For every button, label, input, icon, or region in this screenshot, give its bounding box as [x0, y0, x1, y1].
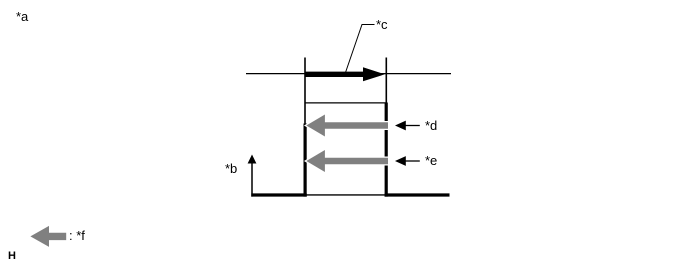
thick baseline left segment	[251, 193, 306, 196]
legend gray arrow	[30, 226, 66, 247]
right thick vertical (pulse edge)	[385, 103, 388, 197]
axis *b arrowhead	[248, 155, 257, 164]
gray arrow *e	[306, 150, 388, 172]
axis *b vertical line	[251, 163, 253, 197]
left thin vertical wire	[304, 58, 306, 125]
thin box bottom wire	[305, 102, 386, 104]
label *c	[376, 18, 388, 31]
pointer arrow to *e	[395, 156, 420, 166]
thin baseline between pulse edges	[305, 194, 386, 196]
right thin vertical wire	[385, 58, 387, 104]
top rail wire	[246, 73, 451, 75]
pointer arrow to *d	[395, 121, 420, 131]
thick baseline right segment	[385, 193, 450, 196]
label H	[8, 250, 16, 263]
label : *f	[69, 229, 85, 242]
left thick vertical (pulse edge)	[304, 124, 307, 197]
label *a	[16, 10, 28, 23]
label *d	[425, 119, 437, 132]
label *b	[225, 162, 237, 175]
leader line to *c	[346, 25, 375, 73]
gray arrow *d	[306, 115, 388, 137]
thick right arrow (*c)	[305, 67, 385, 81]
label *e	[425, 154, 437, 167]
